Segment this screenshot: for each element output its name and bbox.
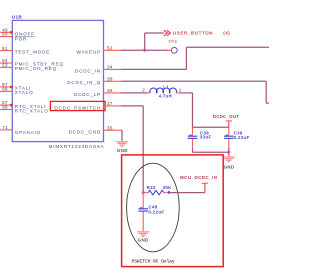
testpoint TP6: [171, 47, 177, 53]
capacitor C39 top lead: [228, 127, 230, 136]
svg-text:0.22uF: 0.22uF: [148, 210, 164, 215]
wire DCDC_IN_Q net horizontal: [121, 80, 266, 82]
wire pin 67: [0, 86, 12, 88]
wire L1 to C38 vertical: [192, 93, 194, 127]
wire DCDC_IN net to edge: [186, 46, 269, 48]
stub pin 52: [104, 49, 122, 51]
svg-text:DCDC_IN: DCDC_IN: [75, 68, 101, 73]
capacitor C38 top lead: [192, 127, 194, 136]
stub L1 pin 2: [147, 92, 150, 94]
svg-text:PMIC_ON_REQ: PMIC_ON_REQ: [15, 66, 57, 71]
wire pin 57: [0, 104, 12, 106]
capacitor C39 bottom lead: [228, 139, 230, 148]
svg-text:RTC_XTALO: RTC_XTALO: [15, 109, 49, 114]
wire DCDC_PSWITCH net horizontal: [121, 105, 143, 107]
wire pin 50: [0, 36, 12, 38]
wire to USER_BUTTON flag horizontal: [145, 32, 164, 34]
resistor R33 left lead: [143, 192, 148, 194]
wire pin 71: [0, 129, 12, 131]
resistor R33 right lead: [164, 192, 169, 194]
node R33 pin 1: [168, 191, 171, 194]
wire DCDC_LP to L1: [121, 92, 147, 94]
wire pin 68: [0, 90, 12, 92]
wire DCDC_IN_Q net vertical: [265, 81, 267, 103]
stub pin 34: [104, 68, 122, 70]
net stub DCDC_OUT vertical: [228, 121, 230, 127]
wire DCDC_GND down: [121, 130, 123, 141]
svg-text:33uF: 33uF: [200, 135, 212, 140]
svg-text:PSWITCH RC Delay: PSWITCH RC Delay: [132, 259, 176, 265]
svg-text:36: 36: [107, 88, 113, 93]
capacitor C39 plates: [224, 135, 234, 137]
capacitor C48 top lead: [142, 193, 144, 209]
resistor R33 body: [148, 190, 164, 195]
capacitor C48 bottom lead: [142, 212, 144, 232]
svg-text:DCDC_PSWITCH: DCDC_PSWITCH: [54, 105, 101, 110]
svg-text:XTALO: XTALO: [15, 90, 34, 95]
svg-text:MIMXRT1024DAG5A: MIMXRT1024DAG5A: [49, 144, 105, 149]
svg-text:WAKEUP: WAKEUP: [76, 50, 101, 55]
svg-text:USER_BUTTON: USER_BUTTON: [173, 31, 213, 36]
svg-text:52: 52: [107, 45, 113, 50]
stub L1 pin 1: [176, 92, 180, 94]
wire pin 58: [0, 109, 12, 111]
wire DCDC_PSWITCH net vertical: [142, 106, 144, 193]
wire top cap rail: [193, 126, 229, 128]
svg-text:4.7uH: 4.7uH: [159, 93, 172, 98]
capacitor C38 bottom lead: [192, 139, 194, 148]
wire R33 to MCU_DCDC_IN: [169, 192, 205, 194]
off-page connector USER_BUTTON: [164, 30, 171, 36]
svg-text:MCU_DCDC_IN: MCU_DCDC_IN: [180, 175, 217, 180]
svg-text:30K: 30K: [163, 185, 173, 190]
capacitor C48 plates: [138, 208, 148, 210]
net stub MCU_DCDC_IN tick: [202, 182, 208, 184]
svg-text:34: 34: [107, 65, 113, 70]
svg-text:58: 58: [2, 105, 8, 110]
stub pin 38: [104, 80, 122, 82]
svg-text:R33: R33: [147, 185, 156, 190]
wire DCDC_IN net vertical: [185, 47, 187, 69]
stub pin 35: [104, 129, 123, 131]
junction R33 C48: [142, 191, 145, 194]
svg-text:U1B: U1B: [12, 15, 23, 20]
svg-text:0.22uF: 0.22uF: [234, 135, 250, 140]
ground DCDC_GND symbol: [116, 141, 128, 143]
svg-text:2: 2: [142, 87, 145, 92]
stub pin 37: [104, 105, 122, 107]
IC U1B body: [12, 20, 103, 141]
svg-text:53: 53: [2, 63, 8, 68]
net stub MCU_DCDC_IN vertical: [204, 183, 206, 192]
svg-text:DCDC_IN_Q: DCDC_IN_Q: [67, 80, 101, 85]
wire pin 49: [0, 31, 12, 33]
svg-text:L1: L1: [163, 85, 169, 90]
svg-text:1: 1: [179, 87, 182, 92]
wire DCDC_IN_Q net to edge: [266, 102, 269, 104]
wire pin 54: [0, 62, 12, 64]
wire WAKEUP net: [121, 49, 168, 51]
svg-text:GPANAIO: GPANAIO: [15, 130, 41, 135]
svg-text:POR: POR: [15, 37, 27, 42]
svg-text:TEST_MODE: TEST_MODE: [15, 50, 50, 55]
node marker pin 49: [10, 31, 13, 33]
highlight box DCDC_PSWITCH: [50, 101, 105, 110]
ground C48 symbol: [137, 231, 149, 233]
svg-text:DCDC_GND: DCDC_GND: [69, 129, 101, 134]
inductor L1: [150, 88, 177, 93]
highlight box PSWITCH RC Delay: [122, 155, 224, 267]
wire pin 53: [0, 66, 12, 68]
wire to USER_BUTTON flag vertical: [144, 33, 146, 50]
junction WAKEUP net: [143, 49, 146, 52]
stub pin 36: [104, 92, 122, 94]
svg-text:37: 37: [107, 101, 113, 106]
ellipse annotation: [127, 163, 180, 252]
svg-text:DCDC_LP: DCDC_LP: [74, 92, 101, 97]
svg-text:68: 68: [2, 87, 8, 92]
wire pin 51: [0, 50, 12, 52]
net stub DCDC_OUT tick: [226, 120, 232, 122]
svg-text:(4): (4): [223, 31, 230, 36]
svg-text:TP6: TP6: [168, 39, 177, 44]
svg-text:GND: GND: [223, 164, 234, 169]
svg-text:DCDC_OUT: DCDC_OUT: [213, 114, 239, 119]
svg-text:51: 51: [2, 46, 8, 51]
capacitor C38 plates: [188, 135, 198, 137]
node marker pin 57: [10, 104, 13, 107]
svg-text:GND: GND: [117, 148, 128, 153]
wire DCDC_IN net horizontal: [121, 68, 186, 70]
ground caps symbol: [223, 156, 235, 158]
svg-text:50: 50: [2, 32, 8, 37]
ground caps lead: [228, 152, 230, 157]
wire L1 to C38 horizontal: [180, 92, 193, 94]
svg-text:GND: GND: [138, 238, 149, 243]
svg-text:38: 38: [107, 76, 113, 81]
junction caps gnd: [227, 151, 230, 154]
svg-text:71: 71: [2, 125, 8, 130]
node marker pin 67: [10, 86, 13, 89]
wire bottom cap rail: [193, 151, 229, 153]
